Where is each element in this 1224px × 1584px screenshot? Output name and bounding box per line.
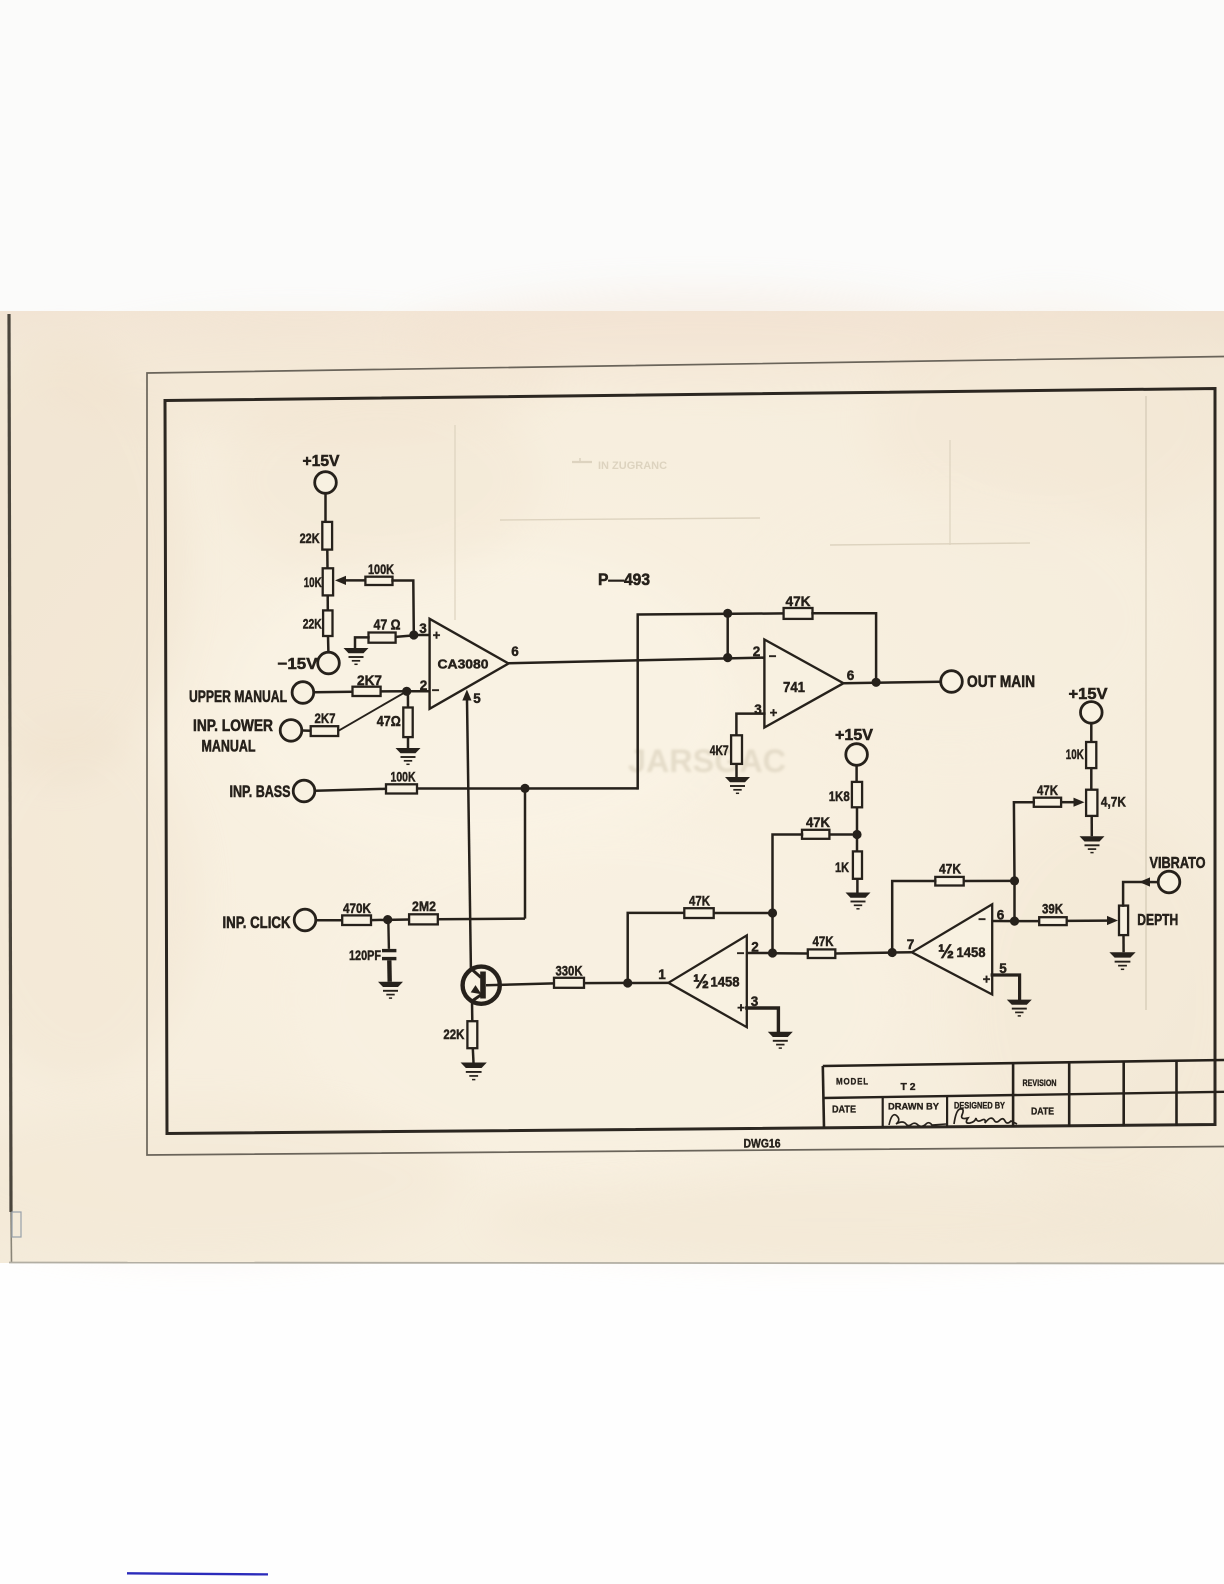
output terminal OUT MAIN <box>941 671 1035 693</box>
svg-text:22K: 22K <box>300 530 320 546</box>
pin 6 label <box>511 644 519 659</box>
svg-text:−15V: −15V <box>278 656 318 673</box>
svg-text:47Ω: 47Ω <box>377 714 401 730</box>
wire <box>747 952 773 955</box>
svg-text:10K: 10K <box>1066 747 1084 762</box>
svg-text:47K: 47K <box>1037 783 1058 798</box>
wire <box>735 764 738 777</box>
wire <box>316 919 342 922</box>
wire <box>773 952 808 955</box>
outer border frame <box>147 357 1224 1156</box>
svg-text:DRAWN BY: DRAWN BY <box>888 1102 940 1113</box>
resistor R6 2K7 <box>311 710 339 736</box>
title block text MODEL <box>836 1077 869 1088</box>
wire <box>438 917 525 920</box>
wire <box>1090 723 1093 742</box>
scanned page left edge <box>9 314 12 1262</box>
wire <box>628 982 669 985</box>
wire <box>1013 881 1016 921</box>
wire <box>381 690 407 693</box>
wire <box>393 581 414 635</box>
wire <box>992 975 1019 1000</box>
svg-text:47 Ω: 47 Ω <box>374 618 401 634</box>
ground <box>396 748 421 764</box>
resistor R9 47K <box>784 593 813 619</box>
ghost bleed-through marks <box>455 396 1146 1010</box>
svg-text:½: ½ <box>693 972 709 993</box>
resistor R22 47K right <box>1034 783 1061 807</box>
svg-text:MODEL: MODEL <box>836 1077 869 1088</box>
title block text DRAWN BY <box>888 1102 940 1113</box>
svg-text:39K: 39K <box>1042 902 1063 917</box>
svg-text:6: 6 <box>511 644 519 659</box>
svg-text:2K7: 2K7 <box>357 672 382 688</box>
svg-text:470K: 470K <box>343 900 371 916</box>
input terminal INP. CLICK <box>223 909 316 932</box>
wire <box>509 658 765 664</box>
output terminal VIBRATO <box>1150 855 1206 893</box>
op-amp U1 CA3080 <box>430 619 509 709</box>
node 330K junction <box>623 978 632 987</box>
wire <box>524 788 527 918</box>
svg-text:1458: 1458 <box>711 974 740 990</box>
resistor R10 4K7 <box>710 735 742 764</box>
wire <box>892 951 912 954</box>
svg-text:2K7: 2K7 <box>315 710 336 726</box>
potentiometer DEPTH <box>1119 906 1178 936</box>
wire <box>584 982 628 985</box>
svg-text:DATE: DATE <box>832 1105 856 1116</box>
resistor R15 2M2 <box>409 898 438 924</box>
resistor R2 22K <box>303 610 333 636</box>
pin 2 label <box>420 678 428 693</box>
+15V supply terminal P4 <box>1069 686 1108 723</box>
svg-text:1K: 1K <box>835 860 849 875</box>
svg-text:DWG16: DWG16 <box>744 1137 781 1151</box>
svg-text:47K: 47K <box>806 815 830 830</box>
node pin2 junction <box>402 687 411 696</box>
wire <box>327 636 330 652</box>
scanned page corner notch <box>12 1212 21 1237</box>
svg-text:INP. LOWER: INP. LOWER <box>193 717 273 735</box>
svg-text:100K: 100K <box>391 770 416 785</box>
capacitor C1 120PF <box>349 920 396 982</box>
wire <box>747 1008 779 1032</box>
resistor R12 1K <box>835 851 862 878</box>
wire <box>486 983 554 985</box>
svg-text:+: + <box>433 628 441 643</box>
label P-493 <box>598 571 650 589</box>
op-amp U2 741 <box>764 640 843 728</box>
resistor R17 330K <box>554 964 584 988</box>
wire <box>407 690 430 693</box>
wire <box>1015 920 1040 923</box>
svg-text:−: − <box>737 946 745 961</box>
svg-text:741: 741 <box>783 680 805 696</box>
svg-text:−: − <box>978 912 986 927</box>
-15V supply terminal P2 <box>278 652 340 674</box>
svg-text:1458: 1458 <box>957 944 986 960</box>
title block text DESIGNED BY <box>954 1101 1005 1111</box>
wire <box>736 714 764 736</box>
svg-text:5: 5 <box>473 691 481 706</box>
arrow into pin 5 <box>462 690 471 701</box>
ground <box>725 777 750 793</box>
wire <box>343 579 365 582</box>
wire <box>472 1048 475 1062</box>
wire <box>338 691 407 731</box>
title block text DATE 2 <box>1031 1107 1054 1118</box>
wire <box>324 493 327 522</box>
svg-text:VIBRATO: VIBRATO <box>1150 855 1206 872</box>
potentiometer 4,7K <box>1074 790 1127 816</box>
ground <box>1109 952 1135 969</box>
svg-text:22K: 22K <box>303 616 322 632</box>
wire <box>856 807 859 851</box>
node bass junction <box>520 784 529 793</box>
input terminal INP. BASS <box>230 780 315 802</box>
svg-text:IN ZUGRANC: IN ZUGRANC <box>598 460 667 472</box>
wire <box>417 787 638 790</box>
blue underline mark <box>127 1573 268 1574</box>
resistor R21 10K <box>1066 742 1096 768</box>
svg-text:INP. CLICK: INP. CLICK <box>223 914 291 932</box>
svg-text:120PF: 120PF <box>349 948 381 963</box>
ground <box>1007 1000 1032 1016</box>
node pin7 junction <box>888 948 897 957</box>
wire <box>355 637 369 648</box>
resistor R1 22K <box>300 522 332 550</box>
svg-text:+15V: +15V <box>835 727 873 744</box>
pin 6 label 1458b <box>997 908 1005 923</box>
signature designed by <box>954 1109 1017 1124</box>
label DWG16 <box>744 1137 781 1151</box>
node fb junction b <box>1010 876 1019 885</box>
svg-text:UPPER MANUAL: UPPER MANUAL <box>189 688 287 706</box>
title block grid <box>823 1060 1224 1128</box>
svg-text:7: 7 <box>907 937 915 952</box>
node feedback top junction <box>723 609 732 618</box>
svg-text:3: 3 <box>419 621 427 636</box>
arrow toward depth pot <box>1139 877 1150 886</box>
wire <box>315 789 386 791</box>
scanned page bottom edge <box>9 1263 1224 1264</box>
wire <box>414 634 430 637</box>
wire <box>396 635 414 637</box>
svg-text:½: ½ <box>938 942 954 963</box>
wire <box>638 613 784 788</box>
pin 6 label 741 <box>847 668 855 683</box>
wire <box>835 951 892 954</box>
svg-text:T 2: T 2 <box>901 1081 916 1093</box>
wire <box>628 913 685 983</box>
svg-text:+: + <box>770 705 778 720</box>
svg-text:4,7K: 4,7K <box>1101 795 1126 810</box>
wire <box>326 595 329 610</box>
svg-text:−: − <box>432 683 440 698</box>
svg-text:INP. BASS: INP. BASS <box>230 783 291 801</box>
resistor R7 47Ω vertical <box>377 708 413 738</box>
svg-text:1K8: 1K8 <box>829 789 850 804</box>
wire <box>471 1001 474 1022</box>
node pin2 junction 741 <box>723 653 732 662</box>
svg-text:22K: 22K <box>443 1026 464 1042</box>
node pin2 junction 1458a <box>768 948 777 957</box>
svg-text:OUT MAIN: OUT MAIN <box>967 673 1035 691</box>
node bias junction <box>852 830 861 839</box>
wire <box>1014 802 1034 881</box>
resistor R4 47Ω <box>369 618 401 643</box>
resistor R8 100K <box>386 770 417 794</box>
+15V supply terminal P1 <box>303 453 340 493</box>
resistor R19 47K coupling <box>808 934 836 958</box>
node pin6 junction <box>1010 917 1019 926</box>
svg-text:+15V: +15V <box>1069 686 1108 703</box>
resistor R14 470K <box>342 900 371 925</box>
pin 3 label 1458a <box>751 994 759 1009</box>
svg-text:P—493: P—493 <box>598 571 650 589</box>
op-amp U4 1/2 1458 <box>912 904 992 994</box>
svg-text:+15V: +15V <box>303 453 340 470</box>
svg-text:47K: 47K <box>939 862 961 877</box>
pin 2 label 1458a <box>751 940 759 955</box>
inner border frame <box>165 389 1215 1134</box>
signature drawn by <box>889 1115 946 1127</box>
wire <box>964 880 1015 883</box>
+15V supply terminal P3 <box>835 727 873 765</box>
svg-text:+: + <box>737 1000 745 1015</box>
node click junction <box>383 915 392 924</box>
wire <box>992 920 1014 923</box>
node pin3 junction <box>409 630 418 639</box>
svg-text:330K: 330K <box>556 964 583 979</box>
wire <box>856 879 859 893</box>
wire <box>714 912 773 915</box>
wire <box>1067 919 1107 922</box>
svg-text:−: − <box>769 649 777 664</box>
title block text DATE <box>832 1105 856 1116</box>
wire <box>1122 935 1125 952</box>
svg-text:DEPTH: DEPTH <box>1137 912 1178 929</box>
svg-text:DATE: DATE <box>1031 1107 1054 1118</box>
wire <box>1090 768 1093 790</box>
pin 5 label <box>473 691 481 706</box>
svg-text:CA3080: CA3080 <box>438 657 489 672</box>
svg-text:47K: 47K <box>786 593 811 609</box>
wire <box>407 691 410 707</box>
wire <box>1123 882 1158 906</box>
op-amp U3 1/2 1458 <box>668 935 746 1027</box>
ground <box>846 893 871 909</box>
wire <box>314 690 353 693</box>
pin 3 label 741 <box>754 702 762 717</box>
input terminal UPPER MANUAL <box>189 682 314 706</box>
node output junction <box>872 678 881 687</box>
svg-text:REVISION: REVISION <box>1023 1078 1057 1088</box>
svg-text:2M2: 2M2 <box>412 898 436 914</box>
arrow into DEPTH pot <box>1107 916 1118 925</box>
svg-text:100K: 100K <box>368 562 394 577</box>
pin 5 label 1458b <box>999 961 1007 976</box>
title block text REVISION <box>1023 1078 1057 1088</box>
wire <box>813 613 877 682</box>
resistor R11 1K8 <box>829 782 862 807</box>
wire <box>467 693 471 969</box>
svg-text:2: 2 <box>753 644 761 659</box>
transistor Q1 <box>463 967 500 1004</box>
pin 3 label <box>419 621 427 636</box>
resistor R13 47K <box>802 815 830 839</box>
wire <box>326 550 329 569</box>
pin 1 label <box>658 967 666 982</box>
resistor R5 2K7 <box>353 672 383 696</box>
svg-text:6: 6 <box>847 668 855 683</box>
ground <box>461 1063 487 1080</box>
ground <box>1080 836 1105 852</box>
pin 7 label <box>907 937 915 952</box>
ground <box>768 1032 793 1048</box>
svg-text:4K7: 4K7 <box>710 743 729 758</box>
wire <box>844 682 941 684</box>
ground <box>344 648 369 664</box>
wire <box>855 765 858 782</box>
potentiometer 10K <box>304 568 346 595</box>
resistor R23 39K <box>1039 902 1067 926</box>
wire <box>1061 801 1073 804</box>
resistor R18 47K feedback <box>684 894 713 919</box>
svg-text:MANUAL: MANUAL <box>202 738 256 756</box>
svg-text:JARSGAC: JARSGAC <box>628 743 786 779</box>
wire <box>1090 816 1093 836</box>
wire <box>892 881 935 953</box>
wire <box>407 737 410 748</box>
input terminal INP. LOWER MANUAL <box>193 717 302 756</box>
title block text T2 <box>901 1081 916 1093</box>
svg-text:47K: 47K <box>689 894 710 909</box>
svg-text:10K: 10K <box>304 574 322 590</box>
resistor R16 22K <box>443 1021 477 1048</box>
svg-text:+: + <box>983 972 991 987</box>
resistor R3 100K <box>365 562 394 585</box>
wire <box>302 729 311 732</box>
svg-text:1: 1 <box>658 967 666 982</box>
wire <box>371 918 409 921</box>
resistor R20 47K feedback b <box>935 862 963 886</box>
svg-text:47K: 47K <box>813 934 834 949</box>
wire <box>773 835 803 954</box>
wire <box>726 613 729 657</box>
ground <box>378 982 403 998</box>
wire <box>829 833 852 836</box>
pin 2 label 741 <box>753 644 761 659</box>
node fb junction a <box>768 908 777 917</box>
